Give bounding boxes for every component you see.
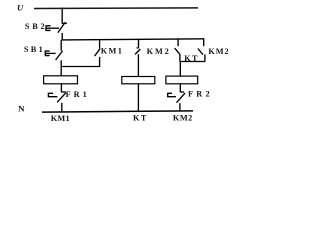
- label SB2: [25, 22, 47, 31]
- coil KM2: [166, 76, 198, 84]
- svg-text:KM2: KM2: [173, 114, 193, 123]
- wire: KT coil to N rail: [137, 84, 139, 112]
- wire: KM1 coil to FR1: [60, 84, 62, 93]
- label N: [18, 103, 25, 113]
- thermal overload contact FR2 (NC): [168, 92, 185, 111]
- contact KM2 (NO, rightmost): [198, 39, 205, 62]
- label KM2 (coil designation): [173, 114, 193, 123]
- pushbutton SB1 (NO start button): [45, 40, 62, 67]
- svg-text:KT: KT: [133, 113, 148, 122]
- node U / top supply rail: [34, 7, 198, 10]
- label KT (coil designation): [133, 113, 148, 122]
- wire: main node line after SB2: [62, 39, 205, 40]
- label KM2: [147, 47, 171, 56]
- label KM1 (coil designation): [51, 114, 70, 123]
- wire: KT/KM2 parallel bottom join: [180, 61, 206, 63]
- label SB1: [24, 45, 45, 54]
- svg-text:KM1: KM1: [101, 47, 124, 56]
- wire: SB1/KM1 parallel bottom join: [61, 66, 99, 68]
- node N / bottom neutral rail: [42, 111, 193, 112]
- label KM1: [101, 47, 124, 56]
- svg-text:SB2: SB2: [25, 22, 47, 31]
- contact KT (NO timer contact): [175, 39, 180, 62]
- contact KM1 (NO self-holding contact): [95, 40, 100, 67]
- svg-text:FR2: FR2: [188, 89, 213, 98]
- pushbutton SB2 (NC stop button): [46, 8, 67, 41]
- svg-text:U: U: [17, 3, 24, 13]
- svg-text:N: N: [18, 103, 25, 113]
- svg-text:KM2: KM2: [147, 47, 171, 56]
- svg-text:FR1: FR1: [66, 90, 90, 99]
- contact KM2 (NO contact feeding KT coil): [135, 39, 140, 77]
- label FR1: [66, 90, 90, 99]
- coil KT: [122, 77, 155, 84]
- svg-text:KM2: KM2: [208, 47, 228, 56]
- svg-text:KM1: KM1: [51, 114, 70, 123]
- label U: [17, 3, 24, 13]
- wire: down to KM1 coil: [60, 67, 62, 77]
- label KT: [184, 54, 199, 63]
- wire: down to KM2 coil: [179, 62, 181, 77]
- thermal overload contact FR1 (NC): [48, 92, 66, 112]
- svg-text:SB1: SB1: [24, 45, 45, 54]
- wire: KM2 coil to FR2: [179, 84, 181, 93]
- label FR2: [188, 89, 213, 98]
- coil KM1: [44, 76, 78, 84]
- label KM2: [208, 47, 229, 56]
